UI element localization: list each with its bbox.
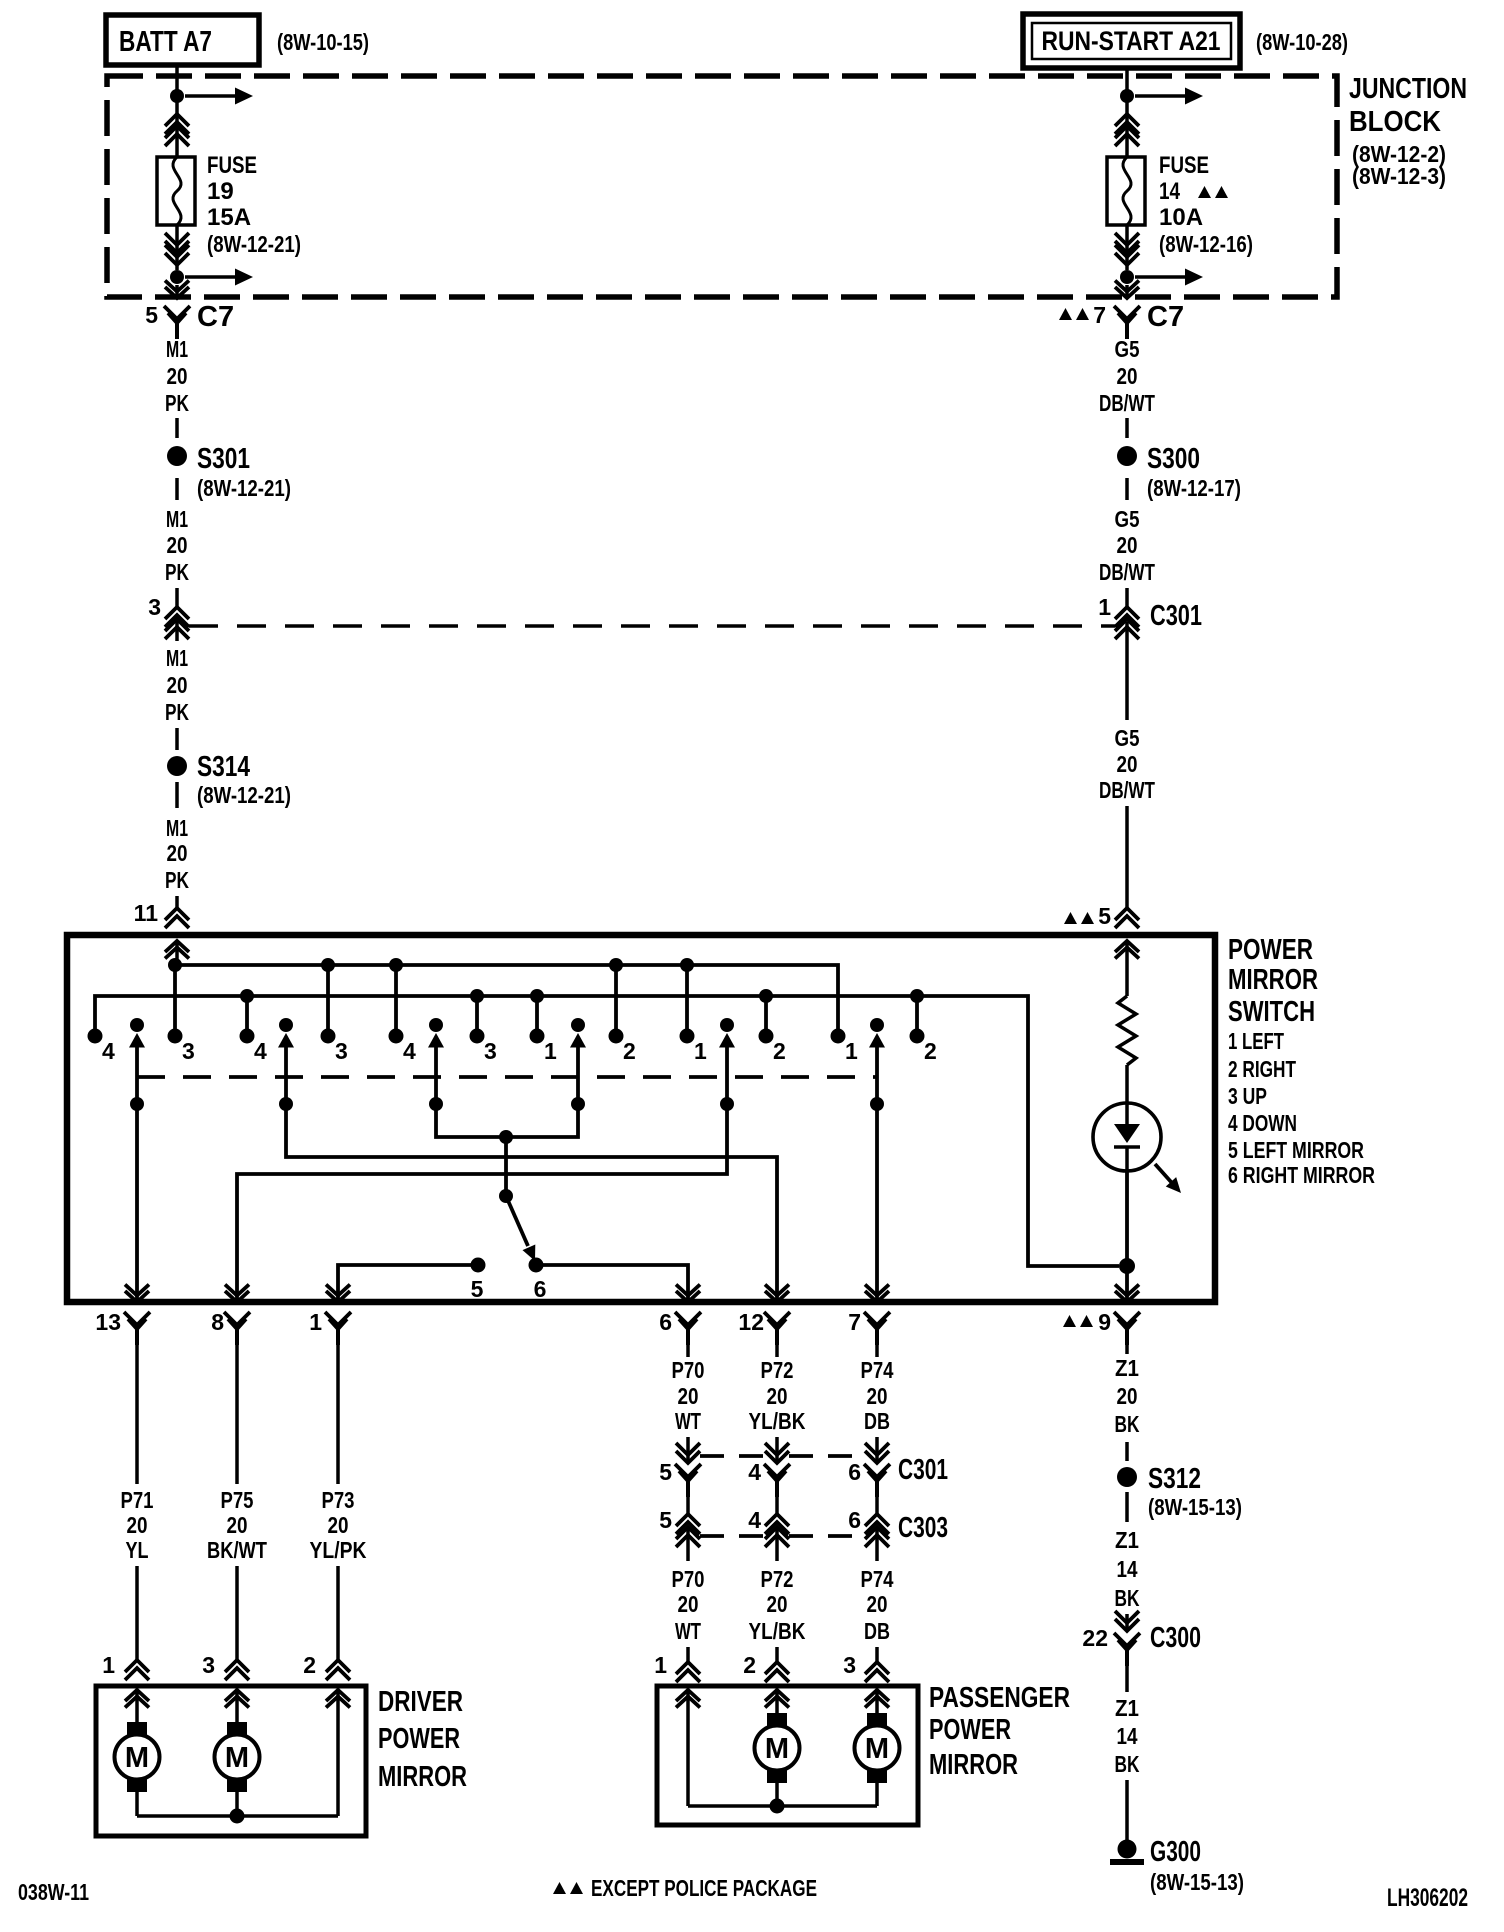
splice S301 [167, 443, 291, 501]
wire tick below S301 [175, 478, 179, 500]
svg-text:6 RIGHT MIRROR: 6 RIGHT MIRROR [1228, 1162, 1375, 1188]
wire C300 down [1125, 1662, 1129, 1692]
contact stubs from bus B [247, 996, 917, 1036]
wire pin 8 down [235, 1342, 239, 1484]
svg-text:1: 1 [309, 1309, 322, 1335]
wire G5 20 DB/WT label 2 [1099, 506, 1155, 585]
svg-text:BATT A7: BATT A7 [119, 26, 212, 58]
svg-text:20: 20 [1117, 751, 1138, 777]
connector pin 7 female [848, 1309, 890, 1345]
node RUN-START A21 [1023, 14, 1240, 68]
wire to ground G300 [1125, 1780, 1129, 1841]
svg-text:C300: C300 [1150, 1622, 1201, 1654]
wire dashed C301 link [189, 624, 1115, 628]
svg-text:(8W-12-21): (8W-12-21) [197, 782, 291, 808]
svg-text:20: 20 [1117, 532, 1138, 558]
svg-text:M1: M1 [166, 506, 188, 532]
svg-text:PK: PK [165, 867, 189, 893]
svg-text:M: M [225, 1742, 249, 1774]
svg-text:G300: G300 [1150, 1836, 1201, 1868]
svg-text:C301: C301 [898, 1454, 948, 1486]
svg-text:WT: WT [675, 1618, 701, 1644]
svg-text:RUN-START A21: RUN-START A21 [1042, 26, 1221, 56]
passenger pin 1 entry arrow [676, 1690, 700, 1806]
svg-text:3: 3 [843, 1652, 856, 1678]
svg-text:P71: P71 [121, 1487, 154, 1513]
svg-text:P70: P70 [672, 1357, 705, 1383]
svg-text:POWER: POWER [929, 1714, 1011, 1746]
wire C301 to G5 label [1125, 622, 1129, 720]
wire P72 20 YL/BK label lower [749, 1566, 806, 1644]
svg-text:1: 1 [544, 1038, 557, 1064]
svg-text:5 LEFT MIRROR: 5 LEFT MIRROR [1228, 1137, 1364, 1163]
wire tick above C301 pin 1 [1125, 588, 1129, 607]
wire C303 pin 4 down [775, 1527, 779, 1561]
svg-text:DB/WT: DB/WT [1099, 390, 1155, 416]
passenger pin 3 entry arrow [865, 1690, 889, 1713]
node junction dot right bottom [1120, 270, 1134, 284]
wire dashed C301 links [700, 1454, 865, 1458]
svg-text:G5: G5 [1115, 336, 1140, 362]
svg-text:POWER: POWER [378, 1723, 460, 1755]
wire P75 20 BK/WT label [207, 1487, 267, 1563]
svg-text:JUNCTION: JUNCTION [1349, 73, 1467, 105]
wire to C300 [1125, 1614, 1129, 1631]
connector driver mirror pin 3 [202, 1652, 249, 1680]
svg-text:2 RIGHT: 2 RIGHT [1228, 1056, 1296, 1082]
wire pin 1 down [336, 1342, 340, 1484]
svg-text:P75: P75 [221, 1487, 254, 1513]
connector C301 pin 1 [1098, 594, 1202, 639]
node LED return junction [1119, 1258, 1135, 1274]
connector passenger mirror pin 3 [843, 1652, 889, 1682]
wire C303 pin 5 down [686, 1527, 690, 1561]
label except police package [553, 1875, 817, 1901]
bus A junction dots [168, 958, 694, 972]
svg-text:11: 11 [134, 900, 159, 926]
svg-text:M: M [125, 1742, 149, 1774]
wire arrow right from left top dot [185, 88, 253, 105]
svg-text:M1: M1 [166, 645, 188, 671]
connector C301 pin 6 [848, 1443, 948, 1497]
selector contact 6 [529, 1258, 547, 1303]
connector C7 male pin 7 [1115, 281, 1139, 299]
ground G300 [1110, 1836, 1244, 1895]
wire tick above S312 [1125, 1442, 1129, 1461]
wire P73 20 YL/PK label [310, 1487, 367, 1563]
svg-text:P74: P74 [861, 1357, 894, 1383]
movable contact arm 3 [428, 1018, 444, 1111]
passenger power mirror box [657, 1686, 918, 1825]
reference (8W-10-15) [277, 29, 369, 55]
svg-text:19: 19 [207, 178, 234, 205]
wire P71 20 YL label [121, 1487, 154, 1563]
connector C7 female pin 5 [145, 301, 234, 339]
wire arrow right from right bottom dot [1135, 269, 1203, 286]
junction block dashed boundary [107, 76, 1337, 297]
connector driver mirror pin 2 [303, 1652, 350, 1680]
pin 11 entry arrow inside switch [165, 941, 189, 965]
wire resistor to LED [1125, 1065, 1129, 1104]
mechanical link dashed line [137, 1075, 877, 1079]
svg-text:4: 4 [748, 1507, 761, 1533]
contact number labels [102, 1038, 937, 1064]
wire C303 pin 6 down [875, 1527, 879, 1561]
wire pin 12 down [775, 1339, 779, 1357]
svg-text:2: 2 [924, 1038, 937, 1064]
svg-text:20: 20 [127, 1512, 148, 1538]
svg-text:6: 6 [659, 1309, 672, 1335]
selector switch blade [499, 1189, 541, 1264]
label DRIVER POWER MIRROR [378, 1686, 467, 1793]
svg-text:P72: P72 [761, 1566, 794, 1592]
connector chevrons below fuse 14 [1115, 233, 1139, 265]
wire pin 9 down [1125, 1339, 1129, 1354]
svg-text:3 UP: 3 UP [1228, 1083, 1267, 1109]
svg-text:(8W-12-16): (8W-12-16) [1159, 231, 1253, 257]
wire bus A [175, 965, 838, 1036]
motor passenger left-right [855, 1713, 900, 1783]
wire arm2 to pin 12 [286, 1104, 789, 1302]
wire P74 20 DB label lower [861, 1566, 894, 1644]
svg-text:2: 2 [303, 1652, 316, 1678]
svg-text:MIRROR: MIRROR [378, 1761, 467, 1793]
bus B junction dots [240, 989, 924, 1003]
svg-text:EXCEPT POLICE PACKAGE: EXCEPT POLICE PACKAGE [591, 1875, 817, 1901]
node BATT A7 [106, 15, 259, 65]
svg-text:M1: M1 [166, 336, 188, 362]
svg-text:3: 3 [335, 1038, 348, 1064]
wire driver motor returns [137, 1792, 338, 1824]
pin 5 entry arrow inside switch [1115, 941, 1139, 996]
svg-text:(8W-10-15): (8W-10-15) [277, 29, 369, 55]
resistor in switch [1118, 996, 1136, 1065]
splice S312 [1117, 1463, 1242, 1520]
movable contact arm 1 [129, 1018, 145, 1111]
svg-text:P74: P74 [861, 1566, 894, 1592]
wire P74 20 DB label upper [861, 1357, 894, 1434]
movable contact arm 5 [719, 1018, 735, 1111]
fuse F14 [1107, 157, 1145, 225]
wire C301 to C303 pin 4 [775, 1493, 779, 1514]
svg-text:PK: PK [165, 699, 189, 725]
svg-text:3: 3 [182, 1038, 195, 1064]
movable contact arm 6 [869, 1018, 885, 1111]
svg-text:M: M [765, 1733, 789, 1765]
svg-text:1: 1 [1098, 594, 1111, 620]
svg-text:5: 5 [1098, 903, 1111, 929]
svg-text:20: 20 [1117, 1383, 1138, 1409]
wire bus B [95, 996, 1119, 1266]
svg-text:(8W-10-28): (8W-10-28) [1256, 29, 1348, 55]
svg-text:BK: BK [1115, 1751, 1140, 1777]
svg-text:7: 7 [1093, 302, 1106, 328]
svg-text:Z1: Z1 [1115, 1355, 1139, 1381]
connector chevrons below fuse 19 [165, 233, 189, 265]
svg-text:20: 20 [678, 1383, 699, 1409]
label 038W-11 [18, 1879, 89, 1905]
svg-text:12: 12 [738, 1309, 764, 1335]
svg-text:C303: C303 [898, 1512, 948, 1544]
connector C7 female pin 7 [1059, 301, 1184, 339]
svg-text:3: 3 [148, 594, 161, 620]
splice S300 [1117, 443, 1241, 501]
wire tick below S314 [175, 782, 179, 808]
wire fuse 19 to connector C7 [175, 225, 179, 270]
svg-text:DRIVER: DRIVER [378, 1686, 463, 1718]
connector pin 9 female [1063, 1309, 1140, 1345]
svg-text:P72: P72 [761, 1357, 794, 1383]
passenger pin 2 entry arrow [765, 1690, 789, 1713]
wire to passenger mirror pin 2 [775, 1647, 779, 1662]
label switch legend [1228, 1028, 1375, 1188]
power mirror switch box [67, 935, 1215, 1302]
wire to driver mirror pin 3 [235, 1566, 239, 1660]
svg-text:10A: 10A [1159, 204, 1203, 231]
label POWER MIRROR SWITCH [1228, 934, 1318, 1028]
movable contact arm 2 [278, 1018, 294, 1111]
svg-text:PASSENGER: PASSENGER [929, 1682, 1070, 1714]
svg-text:20: 20 [167, 672, 188, 698]
svg-text:2: 2 [623, 1038, 636, 1064]
svg-text:LH306202: LH306202 [1387, 1884, 1468, 1912]
svg-text:15A: 15A [207, 204, 251, 231]
svg-text:BK: BK [1115, 1411, 1140, 1437]
svg-text:P70: P70 [672, 1566, 705, 1592]
svg-text:20: 20 [867, 1383, 888, 1409]
svg-text:2: 2 [743, 1652, 756, 1678]
connector switch pin 5 [1064, 903, 1139, 929]
svg-text:FUSE: FUSE [207, 152, 257, 179]
connector C303 pin 4 [748, 1507, 789, 1547]
svg-text:DB/WT: DB/WT [1099, 559, 1155, 585]
svg-text:S314: S314 [197, 751, 250, 783]
svg-text:BK: BK [1115, 1585, 1140, 1611]
svg-text:P73: P73 [322, 1487, 355, 1513]
wire to C301 pin 5 [686, 1437, 690, 1463]
label LH306202 [1387, 1884, 1468, 1912]
svg-text:BLOCK: BLOCK [1349, 106, 1441, 138]
connector C7 male pin 5 [165, 281, 189, 299]
wire pin 7 down [875, 1339, 879, 1357]
svg-text:5: 5 [659, 1507, 672, 1533]
svg-text:038W-11: 038W-11 [18, 1879, 89, 1905]
motor driver up-down [115, 1722, 160, 1792]
wire C301 to C303 pin 5 [686, 1493, 690, 1514]
svg-text:20: 20 [867, 1591, 888, 1617]
svg-text:(8W-15-13): (8W-15-13) [1150, 1869, 1244, 1895]
label JUNCTION BLOCK [1349, 73, 1467, 189]
svg-text:G5: G5 [1115, 506, 1140, 532]
wire M1 20 PK label 4 [165, 815, 189, 893]
svg-text:Z1: Z1 [1115, 1695, 1139, 1721]
svg-text:22: 22 [1082, 1625, 1108, 1651]
connector C301 pin 3 [148, 594, 189, 641]
motor passenger up-down [755, 1713, 800, 1783]
svg-text:5: 5 [659, 1459, 672, 1485]
svg-text:S300: S300 [1147, 443, 1200, 475]
svg-text:5: 5 [145, 302, 158, 328]
svg-text:3: 3 [202, 1652, 215, 1678]
label PASSENGER POWER MIRROR [929, 1682, 1070, 1781]
connector passenger mirror pin 2 [743, 1652, 789, 1682]
wire contact 6 to pin 6 [536, 1265, 700, 1302]
svg-text:WT: WT [675, 1408, 701, 1434]
svg-text:BK/WT: BK/WT [207, 1537, 267, 1563]
svg-text:1: 1 [654, 1652, 667, 1678]
connector pin 13 female [95, 1309, 150, 1345]
svg-text:20: 20 [328, 1512, 349, 1538]
svg-text:20: 20 [767, 1591, 788, 1617]
connector pin 8 female [211, 1309, 250, 1345]
label FUSE 19 15A [207, 152, 301, 257]
svg-text:20: 20 [678, 1591, 699, 1617]
svg-text:6: 6 [848, 1459, 861, 1485]
wire BATT A7 to fuse 19 [175, 65, 179, 157]
wire arm6 to pin 7 [865, 1104, 889, 1302]
svg-text:3: 3 [484, 1038, 497, 1064]
svg-text:4: 4 [102, 1038, 115, 1064]
wire G5 20 DB/WT label 3 [1099, 725, 1155, 803]
svg-text:G5: G5 [1115, 725, 1140, 751]
svg-text:6: 6 [534, 1276, 547, 1302]
wire tick above S300 [1125, 418, 1129, 438]
node junction dot left top [170, 89, 184, 103]
fixed contact dots [88, 1029, 925, 1044]
node junction dot left bottom [170, 270, 184, 284]
connector driver mirror pin 1 [102, 1652, 149, 1680]
wire to passenger mirror pin 1 [686, 1647, 690, 1662]
svg-text:(8W-12-17): (8W-12-17) [1147, 475, 1241, 501]
wire M1 20 PK label 2 [165, 506, 189, 585]
connector C301 pin 5 [659, 1443, 701, 1497]
wire to driver mirror pin 1 [135, 1566, 139, 1660]
svg-text:C7: C7 [1147, 301, 1184, 333]
connector pin 6 female [659, 1309, 701, 1345]
splice S314 [167, 751, 291, 808]
connector pin 12 female [738, 1309, 790, 1345]
wire pin 6 down [686, 1339, 690, 1357]
svg-text:PK: PK [165, 390, 189, 416]
svg-text:M1: M1 [166, 815, 188, 841]
wire M1 20 PK label 3 [165, 645, 189, 725]
svg-text:(8W-12-21): (8W-12-21) [207, 231, 301, 257]
wire tick below S300 [1125, 478, 1129, 500]
wire passenger motor returns [688, 1783, 877, 1814]
wire fuse 14 to connector C7 [1125, 225, 1129, 270]
wire Z1 14 BK label lower [1115, 1695, 1140, 1777]
svg-text:9: 9 [1098, 1309, 1111, 1335]
driver pin 3 entry arrow [225, 1690, 249, 1722]
connector chevrons above fuse 14 [1115, 114, 1139, 146]
wire arrow right from right top dot [1135, 88, 1203, 105]
connector C300 pin 22 [1082, 1611, 1201, 1666]
wire Z1 20 BK label [1115, 1355, 1140, 1437]
svg-text:S312: S312 [1148, 1463, 1201, 1495]
svg-text:Z1: Z1 [1115, 1527, 1139, 1553]
wire to driver mirror pin 2 [336, 1566, 340, 1660]
wire P70 20 WT label lower [672, 1566, 705, 1644]
connector C303 pin 6 [848, 1507, 948, 1547]
reference (8W-10-28) [1256, 29, 1348, 55]
svg-text:(8W-15-13): (8W-15-13) [1148, 1494, 1242, 1520]
svg-text:4: 4 [254, 1038, 267, 1064]
contact stubs from bus A [175, 965, 687, 1036]
wire contact 5 to pin 1 [326, 1265, 478, 1302]
connector chevrons above fuse 19 [165, 114, 189, 146]
driver pin 1 entry arrow [125, 1690, 149, 1722]
svg-text:13: 13 [95, 1309, 121, 1335]
wire arm1 to pin 13 [125, 1104, 149, 1302]
wire arm3 arm4 to selector pivot [436, 1104, 578, 1196]
svg-text:2: 2 [773, 1038, 786, 1064]
wire to passenger mirror pin 3 [875, 1647, 879, 1662]
svg-text:1: 1 [845, 1038, 858, 1064]
svg-text:20: 20 [167, 363, 188, 389]
wire tick above C301 pin 3 [175, 588, 179, 607]
svg-text:6: 6 [848, 1507, 861, 1533]
svg-text:SWITCH: SWITCH [1228, 996, 1315, 1028]
connector C301 pin 4 [748, 1443, 790, 1497]
svg-text:14: 14 [1117, 1723, 1138, 1749]
svg-text:S301: S301 [197, 443, 250, 475]
svg-text:YL/BK: YL/BK [749, 1618, 806, 1644]
svg-text:1: 1 [102, 1652, 115, 1678]
svg-text:20: 20 [167, 840, 188, 866]
wire arm5 to pin 8 [225, 1104, 727, 1302]
svg-text:YL/BK: YL/BK [749, 1408, 806, 1434]
svg-text:1 LEFT: 1 LEFT [1228, 1028, 1284, 1054]
LED indicator [1093, 1103, 1186, 1198]
svg-text:4 DOWN: 4 DOWN [1228, 1110, 1297, 1136]
svg-text:DB/WT: DB/WT [1099, 777, 1155, 803]
wire to C301 pin 6 [875, 1437, 879, 1463]
svg-text:YL/PK: YL/PK [310, 1537, 367, 1563]
wire P72 20 YL/BK label upper [749, 1357, 806, 1434]
wire tick above S314 [175, 728, 179, 750]
wire G5 label to switch pin 5 [1125, 806, 1129, 908]
fuse F19 [157, 157, 195, 225]
connector pin 1 female [309, 1309, 351, 1345]
svg-text:M: M [865, 1733, 889, 1765]
svg-text:5: 5 [471, 1276, 484, 1302]
wire M1 20 PK label 1 [165, 336, 189, 416]
svg-text:4: 4 [748, 1459, 761, 1485]
svg-text:20: 20 [167, 532, 188, 558]
svg-text:MIRROR: MIRROR [929, 1749, 1018, 1781]
svg-text:20: 20 [767, 1383, 788, 1409]
svg-text:20: 20 [1117, 363, 1138, 389]
svg-text:DB: DB [864, 1618, 890, 1644]
svg-text:C301: C301 [1150, 600, 1202, 632]
svg-text:FUSE: FUSE [1159, 152, 1209, 179]
svg-text:DB: DB [864, 1408, 890, 1434]
wire arrow right from left bottom dot [185, 269, 253, 286]
node junction dot right top [1120, 89, 1134, 103]
svg-text:7: 7 [848, 1309, 861, 1335]
driver power mirror box [96, 1686, 366, 1836]
connector switch pin 11 [134, 896, 189, 928]
svg-text:YL: YL [126, 1537, 149, 1563]
motor driver left-right [215, 1722, 260, 1792]
svg-text:MIRROR: MIRROR [1228, 964, 1318, 996]
wire C301 to C303 pin 6 [875, 1493, 879, 1514]
wire Z1 14 BK label upper [1115, 1527, 1140, 1611]
movable contact arm 4 [570, 1018, 586, 1111]
wire LED to pin 9 [1115, 1171, 1139, 1302]
svg-text:(8W-12-3): (8W-12-3) [1352, 163, 1446, 189]
svg-text:(8W-12-21): (8W-12-21) [197, 475, 291, 501]
